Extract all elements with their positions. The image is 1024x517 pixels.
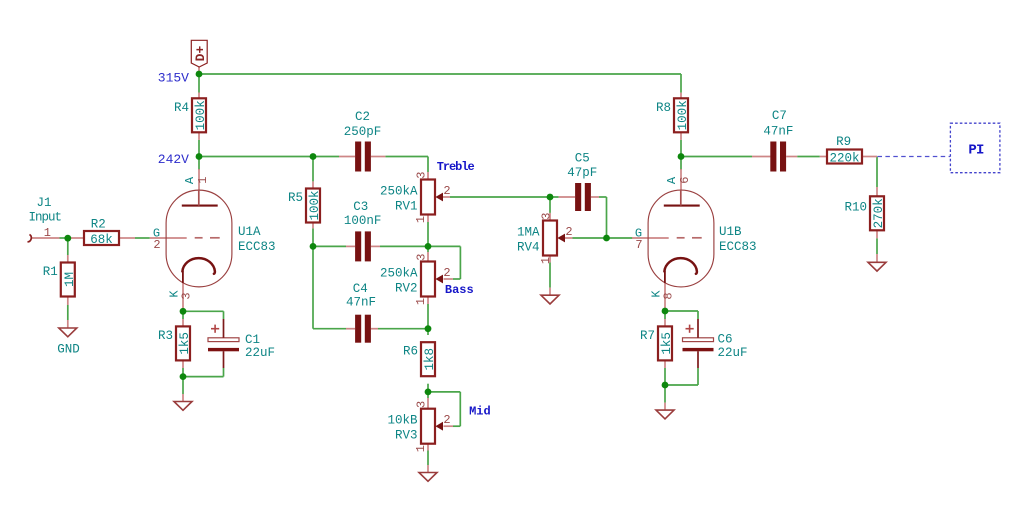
svg-text:A: A (665, 176, 679, 184)
svg-text:C5: C5 (575, 152, 590, 166)
svg-text:Bass: Bass (445, 283, 474, 297)
svg-text:ECC83: ECC83 (719, 240, 757, 254)
svg-text:RV3: RV3 (395, 429, 418, 443)
svg-text:R4: R4 (174, 101, 189, 115)
svg-text:47nF: 47nF (346, 296, 376, 310)
svg-text:J1: J1 (36, 196, 51, 210)
svg-text:3: 3 (539, 213, 553, 220)
svg-text:6: 6 (678, 177, 692, 184)
svg-text:A: A (183, 176, 197, 184)
svg-text:100k: 100k (194, 100, 208, 130)
svg-text:Treble: Treble (437, 160, 475, 174)
svg-text:RV4: RV4 (517, 240, 540, 254)
svg-text:1: 1 (44, 226, 51, 240)
svg-text:RV1: RV1 (395, 199, 418, 213)
svg-text:ECC83: ECC83 (238, 240, 276, 254)
svg-text:R6: R6 (403, 345, 418, 359)
svg-text:R2: R2 (91, 218, 106, 232)
svg-text:GND: GND (57, 343, 80, 357)
svg-text:270k: 270k (872, 198, 886, 228)
svg-text:242V: 242V (158, 152, 189, 167)
svg-text:U1A: U1A (238, 225, 261, 239)
svg-text:2: 2 (153, 238, 160, 252)
svg-text:100k: 100k (308, 190, 322, 220)
svg-text:C6: C6 (718, 333, 733, 347)
svg-text:250kA: 250kA (380, 185, 418, 199)
svg-text:1k8: 1k8 (423, 348, 437, 371)
svg-text:R9: R9 (836, 135, 851, 149)
svg-text:1: 1 (414, 445, 428, 452)
svg-text:2: 2 (443, 413, 450, 427)
svg-text:2: 2 (443, 266, 450, 280)
svg-text:1MA: 1MA (517, 226, 540, 240)
svg-text:C3: C3 (353, 200, 368, 214)
svg-text:C1: C1 (245, 333, 260, 347)
svg-text:C7: C7 (772, 109, 787, 123)
svg-text:D+: D+ (193, 46, 208, 62)
svg-text:PI: PI (968, 143, 984, 159)
svg-text:250kA: 250kA (380, 267, 418, 281)
svg-text:68k: 68k (90, 233, 113, 247)
svg-text:47nF: 47nF (763, 124, 793, 138)
svg-text:RV2: RV2 (395, 281, 418, 295)
svg-text:1k5: 1k5 (178, 332, 192, 355)
svg-text:R10: R10 (844, 201, 867, 215)
svg-text:R3: R3 (158, 329, 173, 343)
svg-text:1: 1 (539, 257, 553, 264)
svg-text:22uF: 22uF (718, 346, 748, 360)
svg-text:10kB: 10kB (387, 414, 418, 428)
svg-text:1: 1 (414, 216, 428, 223)
svg-text:3: 3 (180, 292, 194, 299)
svg-text:220k: 220k (829, 151, 859, 165)
svg-text:3: 3 (414, 254, 428, 261)
svg-text:Mid: Mid (469, 405, 491, 419)
svg-text:R1: R1 (43, 265, 58, 279)
svg-text:R5: R5 (288, 191, 303, 205)
svg-text:3: 3 (414, 172, 428, 179)
svg-text:1: 1 (196, 177, 210, 184)
svg-text:1M: 1M (63, 272, 77, 287)
svg-text:2: 2 (565, 225, 572, 239)
svg-text:250pF: 250pF (344, 125, 382, 139)
svg-text:R8: R8 (656, 101, 671, 115)
svg-text:Input: Input (29, 210, 62, 224)
svg-text:1: 1 (414, 298, 428, 305)
svg-text:100k: 100k (676, 100, 690, 130)
svg-text:3: 3 (414, 401, 428, 408)
svg-text:47pF: 47pF (567, 166, 597, 180)
svg-text:8: 8 (662, 292, 676, 299)
svg-text:2: 2 (443, 184, 450, 198)
svg-text:U1B: U1B (719, 225, 742, 239)
svg-text:315V: 315V (158, 71, 189, 86)
svg-text:C4: C4 (353, 282, 368, 296)
svg-text:R7: R7 (640, 329, 655, 343)
svg-text:100nF: 100nF (344, 214, 382, 228)
svg-text:1k5: 1k5 (660, 332, 674, 355)
svg-text:22uF: 22uF (245, 346, 275, 360)
svg-text:7: 7 (635, 238, 642, 252)
svg-text:C2: C2 (355, 110, 370, 124)
